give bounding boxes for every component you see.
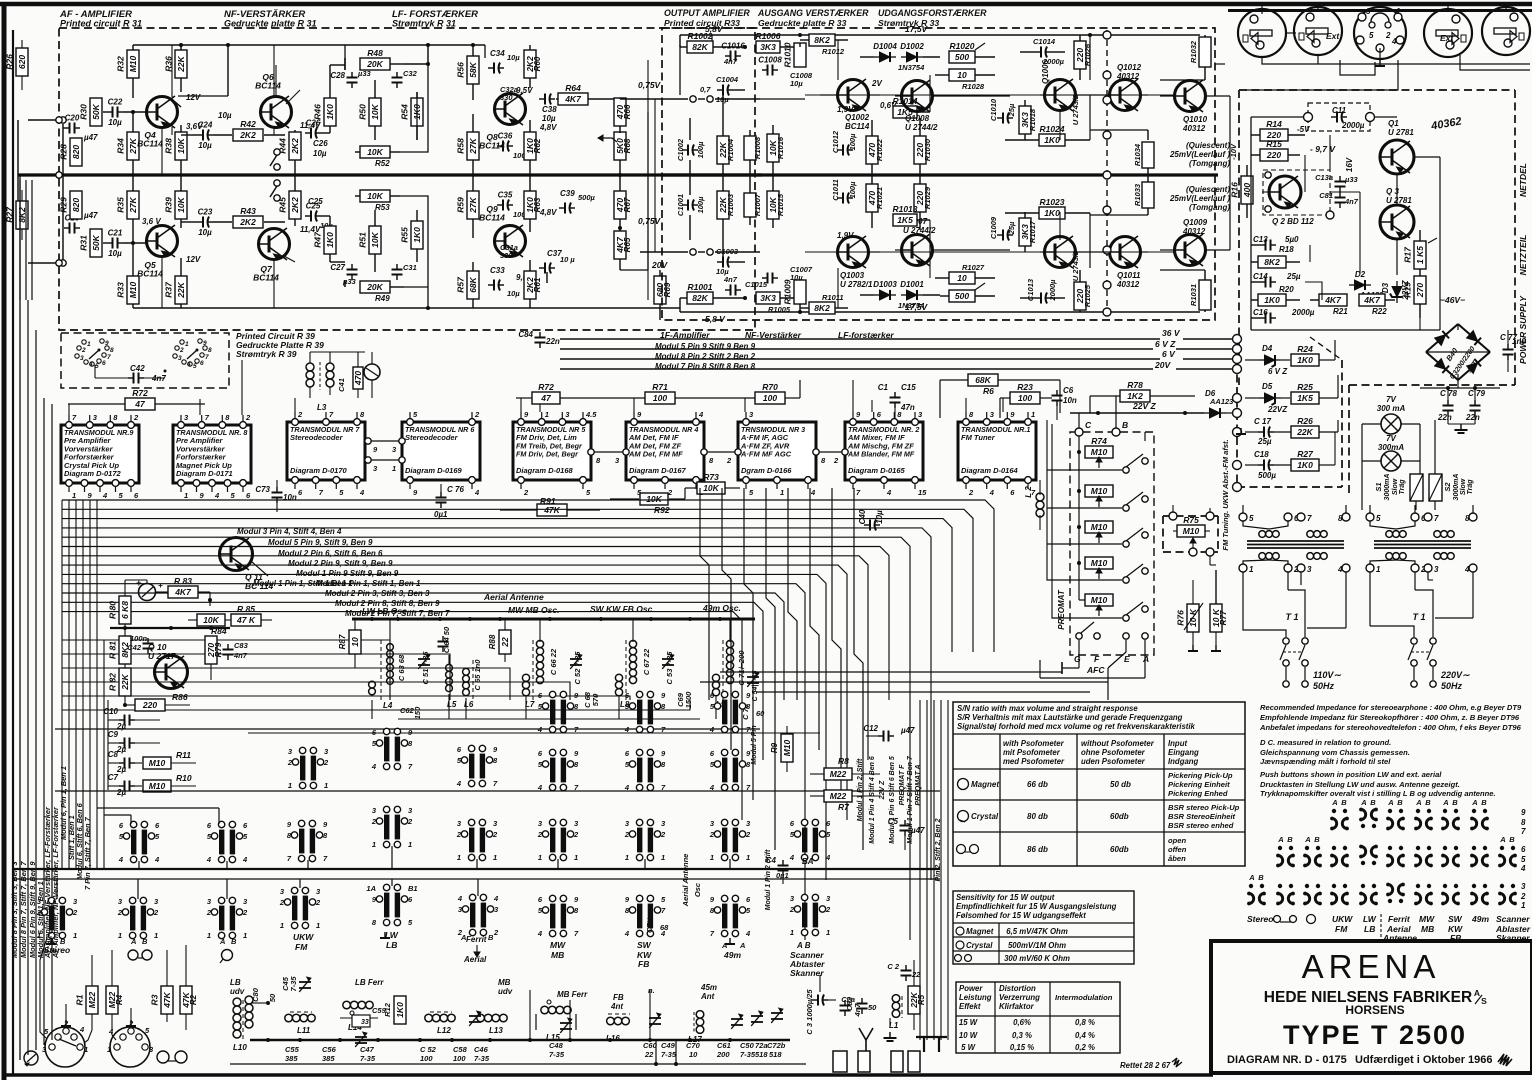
capacitor C11 2000u dashed box <box>1251 103 1397 131</box>
capacitor C9 2u <box>108 730 160 754</box>
svg-text:LB: LB <box>386 940 397 950</box>
svg-text:Drucktasten in Stellung LW: Drucktasten in Stellung LW und ausw. Ant… <box>1260 780 1460 789</box>
matrix label SW KW FB <box>1448 914 1463 943</box>
matrix label Scanner <box>1495 914 1531 943</box>
svg-text:2: 2 <box>1520 892 1526 901</box>
wire left bus down <box>20 175 36 1060</box>
output ground bus <box>662 173 1218 176</box>
svg-text:M10: M10 <box>1091 595 1108 605</box>
phono circles <box>157 1051 187 1063</box>
svg-text:47K: 47K <box>162 991 172 1008</box>
resistor R1013 1K5 <box>892 204 930 226</box>
svg-text:8: 8 <box>1521 818 1526 827</box>
svg-text:A B: A B <box>796 941 811 950</box>
power table header <box>959 984 1113 1011</box>
module label Scanner <box>789 941 825 978</box>
svg-text:R29: R29 <box>59 197 69 213</box>
svg-text:C1010: C1010 <box>989 98 998 121</box>
modul pin label f <box>316 579 421 588</box>
svg-text:R45: R45 <box>278 197 288 213</box>
svg-text:M10: M10 <box>149 758 166 768</box>
svg-text:R88: R88 <box>488 634 497 649</box>
svg-text:D3: D3 <box>1381 282 1390 293</box>
svg-text:4: 4 <box>1464 565 1470 574</box>
record player symbol <box>24 1051 38 1066</box>
svg-text:Q1012: Q1012 <box>1117 63 1142 72</box>
DIN 5-pin connector <box>1354 7 1406 66</box>
transistor Q9 BC114 <box>479 204 525 260</box>
svg-text:C: C <box>1085 420 1092 430</box>
svg-text:500: 500 <box>955 291 969 301</box>
svg-text:M10: M10 <box>128 55 138 72</box>
svg-text:C1015: C1015 <box>745 280 768 289</box>
svg-text:1K0: 1K0 <box>1044 135 1060 145</box>
svg-text:Stereodecoder: Stereodecoder <box>405 433 459 442</box>
capacitor C1013 2000u <box>1020 278 1065 303</box>
resistor M10 e <box>1079 563 1113 606</box>
svg-text:B: B <box>1341 798 1347 807</box>
push-button switch module at 478,915 <box>457 894 499 937</box>
long wire y731 <box>248 732 820 734</box>
svg-text:22n: 22n <box>1465 413 1480 422</box>
DIN connector right <box>1482 2 1530 55</box>
capacitor C31 <box>392 263 417 280</box>
svg-text:20K: 20K <box>366 59 383 69</box>
svg-text:C48: C48 <box>549 1041 564 1050</box>
svg-text:Pickering Einheit: Pickering Einheit <box>1168 780 1230 789</box>
svg-text:0,15 %: 0,15 % <box>1010 1043 1034 1052</box>
svg-text:1K2: 1K2 <box>1127 391 1143 401</box>
svg-text:Q1003: Q1003 <box>840 271 865 280</box>
capacitor C26 10u <box>305 119 330 159</box>
svg-text:MB: MB <box>498 978 511 987</box>
svg-text:A: A <box>1360 798 1366 807</box>
resistor R1025 220 <box>1074 270 1092 312</box>
svg-text:25µ: 25µ <box>1007 221 1016 235</box>
modul bus label 3 <box>655 362 756 371</box>
svg-text:C25: C25 <box>308 197 323 206</box>
svg-text:C 53 7-35: C 53 7-35 <box>665 651 674 685</box>
svg-text:2: 2 <box>789 905 795 914</box>
svg-text:R1013: R1013 <box>892 204 917 214</box>
svg-text:Pin 2, Stift 2, Ben 2: Pin 2, Stift 2, Ben 2 <box>935 818 942 881</box>
resistor R63 1K0 <box>524 175 542 232</box>
svg-text:Modul 5 Pin: Modul 5 Pin <box>751 725 758 764</box>
svg-text:27K: 27K <box>128 196 138 213</box>
label 1.9V upper <box>837 105 854 114</box>
resistor R56 58K <box>456 43 480 100</box>
wire out <box>620 85 760 102</box>
svg-text:6: 6 <box>200 360 204 367</box>
svg-text:1: 1 <box>780 488 784 497</box>
svg-text:R8: R8 <box>838 756 849 766</box>
svg-text:200: 200 <box>716 1050 730 1059</box>
svg-text:220: 220 <box>142 700 157 710</box>
DIN socket right <box>107 1019 154 1067</box>
svg-text:L13: L13 <box>489 1026 503 1035</box>
svg-text:10: 10 <box>689 1050 698 1059</box>
transistor Q11 BC114 <box>220 538 274 592</box>
svg-text:LB: LB <box>230 978 241 987</box>
rotary switch right (R39) <box>173 339 212 370</box>
wires lower mid horizontals <box>700 672 1108 692</box>
svg-text:10µ: 10µ <box>108 118 122 127</box>
svg-text:Träg: Träg <box>1399 479 1406 495</box>
wire fuse to trafo <box>1362 510 1435 513</box>
svg-text:2: 2 <box>709 830 715 839</box>
svg-text:Aerial: Aerial <box>463 955 487 964</box>
label NF-VERSTARKER <box>224 9 317 29</box>
svg-text:B: B <box>1481 798 1487 807</box>
svg-text:570: 570 <box>591 693 600 706</box>
svg-text:1: 1 <box>661 853 665 862</box>
coil transformer L10 <box>230 978 253 1052</box>
transistor Q1011 40312 <box>1110 236 1141 289</box>
coil L7 <box>522 619 543 709</box>
capacitor C1016 4n7 <box>721 42 745 67</box>
svg-text:FM: FM <box>1335 924 1348 934</box>
resistor R82 22K <box>108 668 132 706</box>
svg-text:T 1: T 1 <box>1285 612 1298 622</box>
svg-text:-5V: -5V <box>1297 125 1310 134</box>
svg-text:BC114: BC114 <box>137 269 163 279</box>
Transmodul NR7 (stereodecoder) <box>287 410 365 497</box>
svg-text:4: 4 <box>745 929 751 938</box>
svg-text:10µ: 10µ <box>507 53 520 62</box>
svg-text:R1009: R1009 <box>783 279 793 304</box>
resistor R1021 470 <box>866 175 884 228</box>
capacitor C21 10u <box>107 229 123 259</box>
resistor R34 27K <box>116 112 140 175</box>
svg-text:7V: 7V <box>1386 395 1396 404</box>
svg-text:Träg: Träg <box>1467 479 1474 495</box>
resistor R1004 22K <box>717 90 735 175</box>
resistor R42 2K2 <box>233 119 285 141</box>
svg-text:100: 100 <box>420 1054 433 1063</box>
svg-text:110V∼: 110V∼ <box>1313 670 1341 680</box>
svg-text:B1: B1 <box>408 884 418 893</box>
svg-text:R 85: R 85 <box>237 604 255 614</box>
resistor R1015 10K <box>767 175 785 228</box>
svg-text:R91: R91 <box>540 496 556 506</box>
resistor R69 680 <box>654 270 672 320</box>
resistor R59 27K <box>456 175 480 238</box>
svg-text:2: 2 <box>371 817 377 826</box>
svg-text:Osc: Osc <box>693 882 702 897</box>
svg-text:Sensitivity for 15 W output: Sensitivity for 15 W output <box>956 893 1055 902</box>
preomat switch contacts <box>1123 441 1148 621</box>
bus line y869 <box>14 868 940 870</box>
svg-text:Modul 1 Pin 1, Stift 1 Ben: Modul 1 Pin 1, Stift 1 Ben 1 <box>253 579 353 588</box>
svg-text:TYPE T 2500: TYPE T 2500 <box>1283 1020 1467 1050</box>
label UDGANGSFORSTAERKER <box>878 8 987 28</box>
sub-box dashed outline <box>1237 337 1342 487</box>
lamp LA2 7V 300mA <box>1362 434 1420 471</box>
svg-text:4,8V: 4,8V <box>539 123 557 132</box>
svg-text:Modul 1 Pin 9 Stift 9, Ben: Modul 1 Pin 9 Stift 9, Ben 9 <box>296 569 399 578</box>
transistor Q3 U2781 <box>1380 187 1414 239</box>
resistor R22 4K7 <box>1359 294 1395 316</box>
svg-text:B: B <box>488 933 494 942</box>
svg-text:B: B <box>1370 798 1376 807</box>
svg-text:4K7: 4K7 <box>174 587 192 597</box>
resistor R1 M22 <box>75 955 99 1030</box>
module label pickup <box>219 937 237 963</box>
svg-text:HORSENS: HORSENS <box>1345 1003 1404 1017</box>
svg-text:R16: R16 <box>1230 182 1240 198</box>
svg-text:Q 2 BD 112: Q 2 BD 112 <box>1272 217 1314 226</box>
svg-text:L 2: L 2 <box>1024 486 1033 498</box>
svg-text:4: 4 <box>886 488 892 497</box>
resistor R85 47K <box>225 604 272 626</box>
coil L4 <box>369 619 394 710</box>
svg-text:Følsomhed for 15 W udgangse: Følsomhed for 15 W udgangseffekt <box>956 911 1086 920</box>
capacitor C6 10n <box>1052 386 1077 420</box>
svg-text:49m: 49m <box>723 950 741 960</box>
svg-text:(Tomgang): (Tomgang) <box>1189 159 1230 168</box>
label aerial antenne <box>483 592 544 602</box>
module label UKW FM <box>293 932 390 952</box>
pin joiners NR3 NR2 <box>813 449 848 465</box>
svg-text:2: 2 <box>407 817 413 826</box>
sensitivity header <box>956 893 1117 920</box>
svg-text:15 W: 15 W <box>959 1018 978 1027</box>
svg-text:50: 50 <box>268 993 277 1002</box>
svg-text:4: 4 <box>206 855 212 864</box>
svg-text:R12: R12 <box>383 1002 392 1017</box>
title HEDE NIELSENS FABRIKER <box>1264 988 1487 1006</box>
svg-text:4K7: 4K7 <box>1363 295 1381 305</box>
resistor R45 2K2 <box>278 175 302 226</box>
svg-text:Modul 2 Pin 9, Stift 9, Ben: Modul 2 Pin 9, Stift 9, Ben 9 <box>288 559 393 568</box>
resistor R38 10K <box>164 125 188 175</box>
svg-text:58K: 58K <box>468 61 478 77</box>
svg-text:R1023: R1023 <box>1039 197 1064 207</box>
svg-text:R1031: R1031 <box>1189 284 1198 306</box>
svg-text:8K2: 8K2 <box>814 303 830 313</box>
transistor Q1002 BC114 <box>838 79 883 131</box>
wire diagonal q1006 <box>930 75 1060 278</box>
svg-text:R14: R14 <box>1266 119 1282 129</box>
svg-text:385: 385 <box>322 1054 335 1063</box>
svg-text:Skanner: Skanner <box>790 968 824 978</box>
svg-text:Effekt: Effekt <box>959 1002 981 1011</box>
resistor R19 270 <box>1403 275 1427 318</box>
svg-text:4K7: 4K7 <box>1324 295 1342 305</box>
svg-text:Diagram D-0170: Diagram D-0170 <box>290 466 348 475</box>
svg-text:2: 2 <box>72 908 78 917</box>
svg-text:4: 4 <box>537 725 543 734</box>
svg-text:C 67 22: C 67 22 <box>642 648 651 675</box>
capacitor C1007 <box>762 265 813 284</box>
svg-text:Leistung: Leistung <box>959 993 992 1002</box>
label C71 200 <box>737 650 746 686</box>
svg-text:Stereo: Stereo <box>1247 914 1273 924</box>
coil L1 <box>889 995 902 1030</box>
svg-text:66 db: 66 db <box>1027 780 1048 789</box>
coil L14 <box>340 1001 378 1032</box>
resistor R57 68K <box>456 262 480 308</box>
svg-text:R1008: R1008 <box>753 136 762 159</box>
svg-text:Distortion: Distortion <box>999 984 1036 993</box>
svg-text:Eingang: Eingang <box>1168 748 1199 757</box>
svg-text:C56: C56 <box>322 1045 337 1054</box>
resistor R1032 <box>1189 35 1211 80</box>
wire feeders left <box>20 180 32 300</box>
svg-text:22V Z: 22V Z <box>879 780 886 800</box>
svg-text:R59: R59 <box>456 197 466 213</box>
svg-text:4: 4 <box>88 361 93 368</box>
svg-text:C 54|7-35: C 54|7-35 <box>752 671 759 702</box>
svg-text:Magnet: Magnet <box>971 780 999 789</box>
svg-text:MW MB Osc.: MW MB Osc. <box>508 605 559 615</box>
svg-text:B: B <box>142 937 148 946</box>
transformer T1 220V <box>1366 513 1477 622</box>
svg-text:UKW: UKW <box>293 932 314 942</box>
svg-text:R52: R52 <box>375 159 390 168</box>
svg-text:1N3754: 1N3754 <box>898 301 925 310</box>
capacitor C16 2000u <box>1251 308 1315 324</box>
svg-text:BSR StereoEinheit: BSR StereoEinheit <box>1168 812 1236 821</box>
svg-text:R1020: R1020 <box>949 41 974 51</box>
svg-text:0,75V: 0,75V <box>638 216 662 226</box>
svg-text:Q1: Q1 <box>1388 119 1399 128</box>
svg-text:7: 7 <box>1434 514 1439 523</box>
svg-text:100: 100 <box>763 393 777 403</box>
resistor R35 27K <box>116 175 140 243</box>
svg-text:BC114: BC114 <box>479 213 505 223</box>
svg-text:Printed circuit R 31: Printed circuit R 31 <box>60 19 142 29</box>
Transmodul NR2 (AM mixer) <box>845 410 927 497</box>
label OUTPUT AMPLIFIER <box>664 8 750 28</box>
connector column dashed <box>1106 30 1108 318</box>
svg-text:åben: åben <box>1168 854 1186 863</box>
resistor R44 2K2 <box>278 130 302 175</box>
svg-text:C1012: C1012 <box>831 130 840 153</box>
resistor R26 22K <box>1274 416 1338 438</box>
resistor R1002 82K <box>680 31 747 53</box>
svg-text:U 2781: U 2781 <box>1388 128 1414 137</box>
svg-text:470: 470 <box>353 371 363 386</box>
osc bus thick <box>352 617 755 621</box>
resistor R72b 47 <box>516 382 560 404</box>
svg-text:Modul 1 Pin 4 Stift 4 Ben 6: Modul 1 Pin 4 Stift 4 Ben 6 <box>869 756 876 844</box>
svg-text:4: 4 <box>214 491 220 500</box>
svg-text:MB: MB <box>551 950 564 960</box>
svg-text:100: 100 <box>1018 393 1032 403</box>
svg-text:518: 518 <box>755 1050 768 1059</box>
svg-text:1: 1 <box>184 491 188 500</box>
resistor R1001 82K <box>680 282 747 312</box>
svg-text:8K2: 8K2 <box>814 35 830 45</box>
label LF-FORSTAERKER <box>392 9 478 29</box>
resistor M10 b <box>1077 452 1113 497</box>
svg-text:1: 1 <box>392 464 396 473</box>
diode D2 AA123 <box>1349 270 1384 299</box>
svg-text:M10: M10 <box>128 281 138 298</box>
transistor Q1003 U2782/1 <box>838 236 874 289</box>
push-button switch module at 558,712 <box>537 691 579 734</box>
svg-text:M22: M22 <box>87 991 97 1008</box>
svg-text:R61: R61 <box>533 277 542 292</box>
S/N table frame <box>953 702 1245 866</box>
svg-text:1: 1 <box>710 853 714 862</box>
svg-text:C8: C8 <box>108 750 119 759</box>
capacitor C32 <box>392 69 418 88</box>
resistor R1010 <box>783 42 807 67</box>
label LW LB Osc <box>362 606 407 616</box>
resistor R29 820 <box>59 191 83 219</box>
resistor R3 47K <box>150 950 174 1022</box>
svg-text:330: 330 <box>500 251 513 260</box>
svg-text:6 V Z: 6 V Z <box>1155 339 1176 349</box>
svg-text:Verzerrung: Verzerrung <box>999 993 1040 1002</box>
svg-text:2: 2 <box>573 830 579 839</box>
svg-text:4: 4 <box>537 783 543 792</box>
fuse S2 3000mA <box>1429 474 1474 501</box>
svg-text:C1002: C1002 <box>676 138 685 161</box>
push-button switch module at 558,840 <box>537 819 579 862</box>
resistor R50 10K <box>358 80 382 140</box>
svg-text:FB: FB <box>613 993 624 1002</box>
svg-text:C28: C28 <box>330 71 345 80</box>
capacitor C76 <box>434 484 464 519</box>
wires output mid <box>868 95 1110 252</box>
transistor Q1005 U2743/2 <box>1045 236 1081 281</box>
svg-text:330: 330 <box>500 93 513 102</box>
label 1.9V lower <box>837 231 854 240</box>
modul pin label g <box>325 589 430 598</box>
capacitor C40 10u <box>858 490 884 531</box>
modul bus label 1 <box>655 342 756 351</box>
zener D3 22VZ <box>1381 279 1410 303</box>
svg-text:Modul 5 Pin 9, Stift 9, Be: Modul 5 Pin 9, Stift 9, Ben 9 <box>268 538 373 547</box>
svg-text:R39: R39 <box>164 197 174 213</box>
svg-text:385: 385 <box>285 1054 298 1063</box>
capacitor C41 470 <box>337 352 363 398</box>
svg-text:Printed circuit R33: Printed circuit R33 <box>664 18 740 28</box>
resistor R1027 10 <box>935 263 995 284</box>
wire preomat E A <box>1040 640 1145 700</box>
svg-text:R31: R31 <box>79 235 89 251</box>
svg-text:R53: R53 <box>375 203 390 212</box>
svg-text:2: 2 <box>537 830 543 839</box>
svg-text:2: 2 <box>624 830 630 839</box>
svg-text:100µ: 100µ <box>696 141 705 159</box>
svg-text:1K0: 1K0 <box>325 104 335 120</box>
svg-text:Crystal: Crystal <box>971 812 999 821</box>
svg-text:220: 220 <box>1266 150 1281 160</box>
resistor R12 1K0 <box>383 996 406 1024</box>
capacitor C81 4n7 <box>1319 191 1359 208</box>
wire out lower <box>640 249 760 255</box>
module label Ferrit Aerial <box>460 933 494 964</box>
resistor R1028 10 <box>935 69 995 91</box>
svg-text:12V: 12V <box>186 93 201 102</box>
svg-text:Pickering Enhed: Pickering Enhed <box>1168 789 1228 798</box>
coil L6 <box>463 659 482 709</box>
wire Q4 Q5 links <box>146 64 162 308</box>
button matrix row 9-7 <box>1330 798 1526 836</box>
resistor R1012 8K2 <box>800 34 848 56</box>
svg-text:2: 2 <box>492 830 498 839</box>
svg-text:4: 4 <box>709 783 715 792</box>
svg-text:10K: 10K <box>370 231 380 247</box>
coil L5 <box>446 655 457 709</box>
resistor R66 470 <box>614 98 632 133</box>
svg-text:47: 47 <box>134 399 146 409</box>
svg-text:A: A <box>1499 835 1505 844</box>
